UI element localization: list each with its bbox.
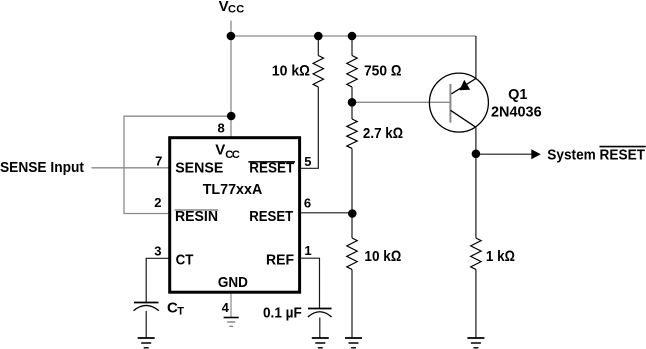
svg-text:GND: GND: [218, 274, 248, 291]
svg-text:V: V: [215, 141, 225, 158]
svg-text:T: T: [177, 306, 184, 318]
svg-text:TL77xxA: TL77xxA: [203, 181, 263, 198]
svg-text:6: 6: [304, 196, 311, 211]
svg-text:2: 2: [154, 195, 161, 210]
svg-text:System RESET: System RESET: [547, 146, 645, 163]
svg-text:Q1: Q1: [508, 86, 527, 103]
svg-text:5: 5: [304, 154, 311, 169]
svg-text:7: 7: [155, 153, 162, 168]
svg-text:CT: CT: [176, 251, 194, 268]
svg-text:10 kΩ: 10 kΩ: [272, 62, 310, 79]
svg-text:0.1 µF: 0.1 µF: [263, 304, 302, 321]
svg-text:2N4036: 2N4036: [491, 104, 542, 121]
svg-text:8: 8: [217, 120, 224, 135]
svg-text:CC: CC: [228, 4, 244, 16]
svg-text:1 kΩ: 1 kΩ: [486, 248, 515, 265]
svg-text:3: 3: [154, 244, 161, 259]
svg-text:CC: CC: [225, 149, 240, 161]
svg-text:2.7 kΩ: 2.7 kΩ: [363, 125, 403, 142]
svg-text:RESET: RESET: [249, 208, 293, 225]
svg-text:SENSE Input: SENSE Input: [0, 159, 84, 176]
svg-text:1: 1: [304, 243, 311, 258]
svg-text:10 kΩ: 10 kΩ: [364, 248, 401, 265]
svg-text:REF: REF: [266, 251, 294, 268]
svg-text:SENSE: SENSE: [175, 160, 223, 177]
svg-text:4: 4: [222, 300, 230, 315]
svg-text:750 Ω: 750 Ω: [364, 63, 402, 80]
